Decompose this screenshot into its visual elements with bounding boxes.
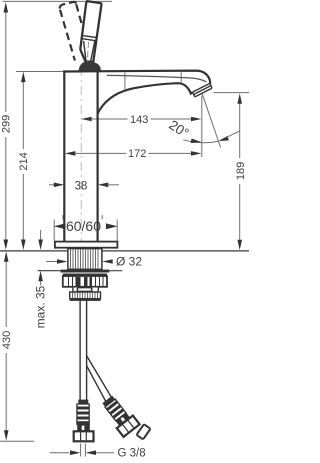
svg-text:189: 189 (235, 162, 247, 180)
svg-text:Ø 32: Ø 32 (116, 255, 142, 269)
svg-text:G 3/8: G 3/8 (118, 448, 146, 460)
svg-text:430: 430 (1, 331, 13, 349)
svg-text:143: 143 (130, 114, 148, 126)
svg-text:max. 35: max. 35 (34, 285, 48, 328)
svg-text:172: 172 (128, 148, 146, 160)
svg-text:299: 299 (1, 115, 13, 133)
svg-text:60/60: 60/60 (66, 218, 101, 234)
svg-text:214: 214 (18, 152, 30, 170)
